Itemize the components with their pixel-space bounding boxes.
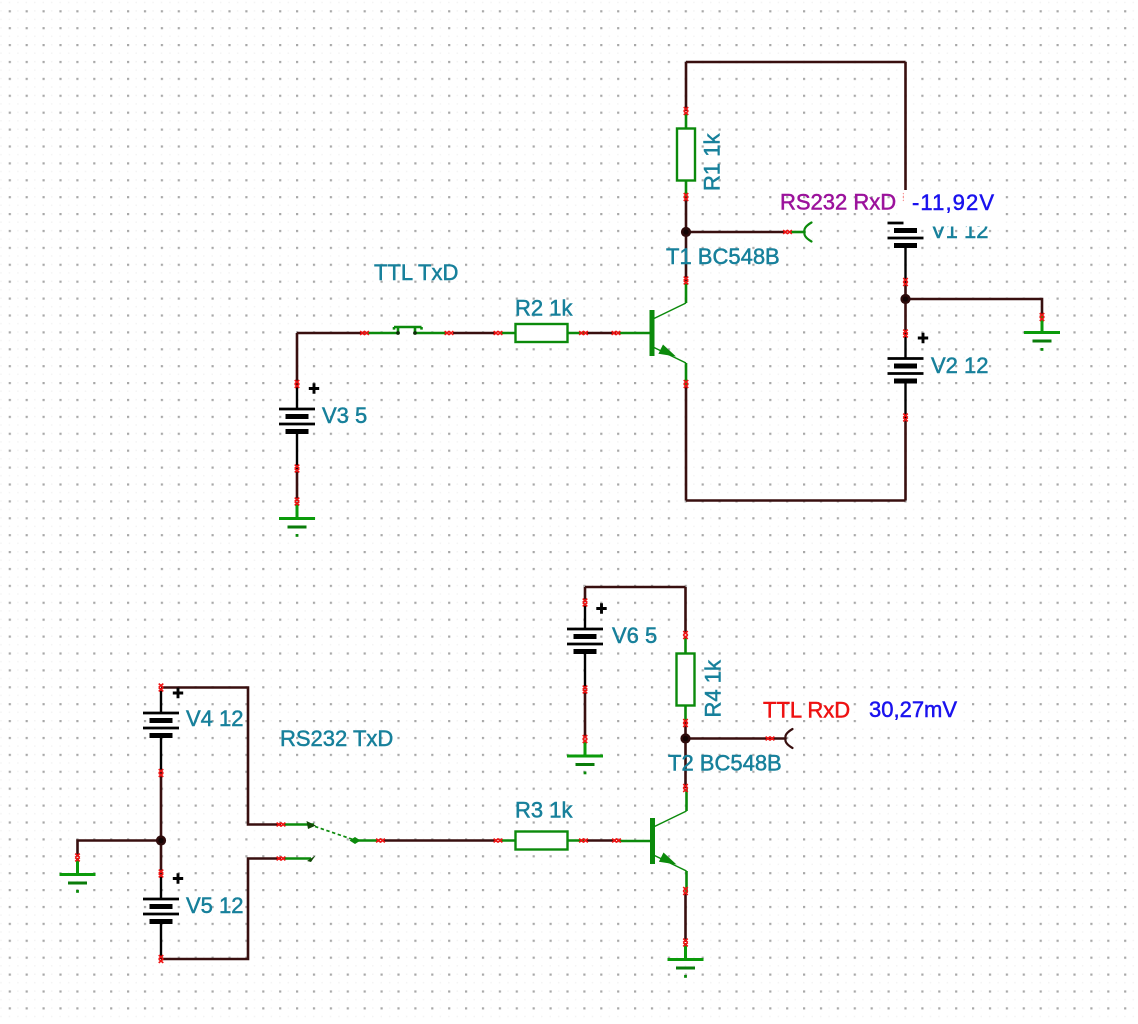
terminal RS232 RxD — [804, 223, 811, 242]
wire down to V1 plus — [904, 62, 907, 197]
wire V6 top rail — [585, 586, 686, 589]
pin marker switch upper — [277, 823, 286, 827]
pin marker — [579, 839, 588, 843]
wire corner down to R4 — [684, 587, 687, 634]
pin marker V2 plus — [903, 330, 908, 338]
pin marker ground — [295, 498, 300, 506]
ground (below V3) — [279, 502, 315, 537]
svg-text:V6 5: V6 5 — [612, 623, 657, 648]
resistor R4 — [677, 637, 695, 722]
switch SW1 blade (dashed) — [315, 827, 353, 840]
switch SW1 lower contact (open) — [307, 856, 316, 863]
wire node to V5 plus — [160, 841, 163, 875]
ground (below V6) — [567, 740, 603, 775]
battery V3 — [279, 384, 315, 469]
wire V4 plus to switch upper contact — [161, 688, 281, 825]
junction node (V1 / V2 / ground) — [900, 294, 910, 304]
pin marker T2 collector — [683, 784, 688, 792]
switch SW1 common contact — [350, 837, 361, 844]
pin marker ground — [1040, 313, 1045, 321]
wire V6 minus to ground — [584, 690, 587, 738]
plus sign V1 — [918, 197, 928, 207]
wire bottom rail — [686, 499, 906, 502]
jumper J1 (TTL TxD line) — [366, 327, 447, 335]
pin marker terminal — [783, 230, 792, 234]
junction node (V4 / V5 / ground) — [156, 835, 166, 845]
wire corner down to V3 plus — [296, 333, 299, 384]
pin marker — [360, 331, 369, 335]
wire node to ground — [78, 841, 162, 857]
wire top rail to R1 — [685, 62, 688, 111]
pin marker T2 base — [612, 839, 621, 843]
pin marker T1 emitter — [684, 380, 689, 388]
wire node to ground — [906, 299, 1043, 318]
wire V3 branch to jumper — [297, 332, 365, 335]
resistor R1 — [677, 112, 695, 197]
svg-text:V3 5: V3 5 — [322, 403, 367, 428]
battery V1 — [888, 198, 924, 283]
pin marker terminal — [766, 737, 775, 741]
ground (left, V4/V5 node) — [60, 858, 96, 893]
terminal TTL RxD — [785, 729, 792, 748]
pin marker V3 minus — [295, 465, 300, 473]
pin marker — [684, 107, 689, 115]
svg-text:30,27mV: 30,27mV — [869, 697, 957, 722]
svg-text:-11,92V: -11,92V — [912, 190, 995, 215]
battery V6 — [567, 604, 603, 689]
switch SW1 common lead — [357, 839, 379, 842]
svg-text:R3 1k: R3 1k — [515, 798, 573, 823]
wire V2 minus down — [904, 419, 907, 501]
pin marker switch common — [376, 839, 385, 843]
plus sign V2 — [918, 333, 928, 343]
pin marker V4 minus — [159, 769, 164, 777]
wire top rail (R1 top to V1 branch) — [686, 61, 906, 64]
transistor T1 — [618, 281, 686, 385]
switch SW1 upper throw lead — [284, 823, 314, 826]
pin marker V2 minus — [903, 414, 908, 422]
wire switch common to R3 — [384, 839, 497, 842]
resistor R3 — [499, 832, 584, 850]
pin marker — [684, 193, 689, 201]
wire R3 to T2 base — [586, 839, 616, 842]
pin marker — [579, 331, 588, 335]
svg-text:R2 1k: R2 1k — [515, 296, 573, 321]
svg-text:T1 BC548B: T1 BC548B — [666, 244, 780, 269]
pin marker V6 plus — [583, 599, 588, 607]
pin marker V1 plus — [903, 193, 908, 201]
pin marker V4 plus — [159, 684, 164, 692]
wire V1 minus to node — [904, 283, 907, 299]
battery V5 — [143, 874, 179, 959]
wire node to V2 plus — [904, 299, 907, 334]
pin marker — [494, 331, 503, 335]
svg-text:R4 1k: R4 1k — [701, 659, 726, 717]
wire R4 bottom through node to T2 collector — [684, 722, 687, 788]
junction node (R4 / T2 collector / terminal) — [680, 733, 690, 743]
transistor T2 — [619, 789, 687, 893]
pin marker T1 collector — [684, 277, 689, 285]
junction node (T1 collector / R1 / terminal) — [681, 227, 691, 237]
wire V4 minus to node — [160, 773, 163, 841]
ground (below T2 emitter) — [668, 943, 704, 978]
ground (right of V1/V2 node) — [1024, 316, 1060, 351]
pin marker T1 base — [612, 331, 621, 335]
pin marker R4 top — [683, 631, 688, 639]
wire V5 minus to switch lower contact — [161, 859, 281, 960]
resistor R2 — [499, 324, 584, 342]
voltage readout 30,27mV (white box) — [861, 696, 963, 726]
plus sign V3 — [309, 383, 319, 393]
pin marker — [494, 839, 503, 843]
pin marker V6 minus — [583, 686, 588, 694]
wire R2 to T1 base — [586, 332, 616, 335]
switch SW1 upper contact — [307, 821, 317, 829]
pin marker switch lower — [277, 857, 286, 861]
pin marker R4 bottom — [683, 719, 688, 727]
pin marker T2 emitter — [683, 887, 688, 895]
svg-text:V5 12: V5 12 — [186, 893, 244, 918]
svg-text:TTL RxD: TTL RxD — [763, 698, 850, 723]
battery V4 — [143, 688, 179, 773]
svg-text:T2 BC548B: T2 BC548B — [668, 751, 782, 776]
svg-text:TTL TxD: TTL TxD — [374, 260, 458, 285]
pin marker ground — [583, 735, 588, 743]
pin marker ground — [75, 854, 80, 862]
wire corner to V6 plus — [584, 587, 587, 602]
wire bottom rail to T1 emitter — [685, 385, 688, 501]
svg-text:RS232 RxD: RS232 RxD — [780, 190, 896, 215]
voltage readout -11,92V (white box) — [904, 190, 1004, 227]
wire R1 bottom through node to T1 collector — [685, 197, 688, 281]
plus sign V6 — [596, 603, 606, 613]
pin marker V1 minus — [903, 278, 908, 286]
wire jumper to R2 — [453, 332, 496, 335]
pin marker — [445, 331, 454, 335]
svg-text:RS232 TxD: RS232 TxD — [280, 726, 393, 751]
plus sign V4 — [173, 688, 183, 698]
wire node to RS232 RxD terminal — [686, 231, 786, 234]
switch SW1 lower throw lead — [284, 857, 311, 860]
pin marker V3 plus — [295, 380, 300, 388]
svg-text:V2 12: V2 12 — [931, 353, 989, 378]
wire node to TTL RxD terminal — [686, 737, 787, 740]
pin marker V5 minus — [159, 955, 164, 963]
battery V2 — [888, 334, 924, 419]
plus sign V5 — [173, 873, 183, 883]
pin marker V5 plus — [159, 870, 164, 878]
svg-text:V4 12: V4 12 — [186, 706, 244, 731]
wire T2 emitter to ground — [684, 893, 687, 942]
wire terminal stub — [791, 231, 806, 234]
pin marker ground — [683, 939, 688, 947]
wire V3 minus to ground — [296, 469, 299, 501]
svg-text:R1 1k: R1 1k — [700, 133, 725, 191]
